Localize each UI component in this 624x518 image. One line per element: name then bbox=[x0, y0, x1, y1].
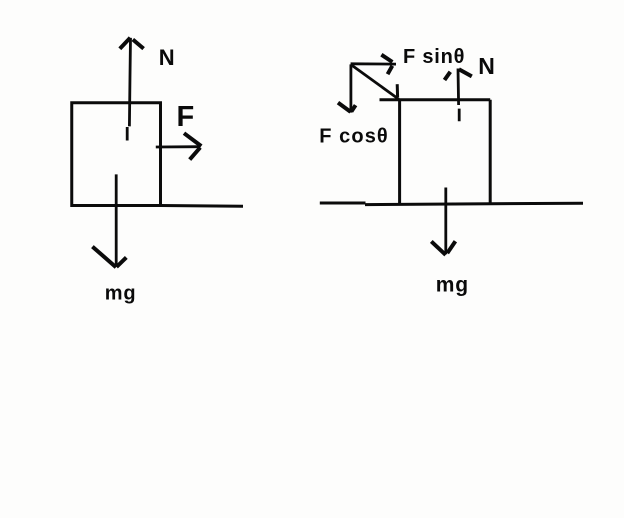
svg-text:F cosθ: F cosθ bbox=[319, 126, 389, 148]
svg-text:N: N bbox=[478, 53, 495, 79]
arrow N left (normal force shaft) bbox=[127, 38, 130, 141]
ground line left bbox=[161, 204, 244, 208]
arrowhead N left bbox=[120, 38, 144, 49]
label F sin theta bbox=[403, 46, 465, 68]
label mg right bbox=[436, 274, 469, 297]
label mg left bbox=[105, 283, 137, 305]
label N right bbox=[478, 53, 495, 79]
arrowhead mg right bbox=[431, 241, 455, 255]
svg-text:mg: mg bbox=[436, 274, 469, 297]
arrowhead F sin component right bbox=[381, 55, 392, 74]
svg-text:F: F bbox=[177, 101, 195, 133]
arrow F cos component right (shaft) bbox=[349, 64, 352, 112]
ground line right bbox=[320, 203, 583, 205]
arrowhead mg left bbox=[92, 247, 126, 268]
block left (box on surface) bbox=[72, 103, 161, 206]
svg-text:mg: mg bbox=[105, 283, 137, 305]
label N left bbox=[159, 45, 175, 70]
label F left bbox=[177, 101, 195, 133]
arrowhead F diagonal right bbox=[396, 84, 399, 97]
arrow N right (normal force shaft) bbox=[458, 69, 459, 122]
label F cos theta bbox=[319, 126, 389, 148]
arrowhead N right bbox=[445, 69, 472, 80]
arrow mg right (weight shaft) bbox=[444, 188, 447, 255]
block right (box on surface) bbox=[380, 100, 491, 205]
svg-text:N: N bbox=[159, 45, 175, 70]
arrow mg left (weight shaft) bbox=[115, 174, 118, 266]
arrow F diagonal right (applied force at angle) bbox=[351, 64, 399, 99]
arrowhead F cos component right bbox=[338, 103, 356, 112]
arrow F left (applied force shaft) bbox=[156, 145, 201, 148]
svg-text:F sinθ: F sinθ bbox=[403, 46, 465, 68]
arrow F sin component right (shaft) bbox=[351, 62, 396, 65]
arrowhead F left bbox=[184, 133, 201, 159]
